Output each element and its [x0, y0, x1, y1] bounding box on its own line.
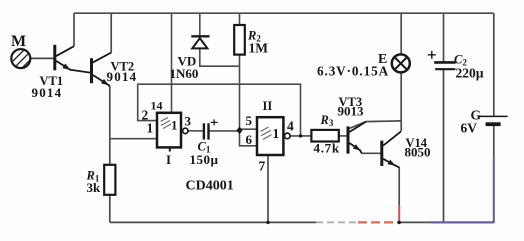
svg-text:6: 6 — [246, 132, 253, 147]
svg-text:4.7k: 4.7k — [314, 141, 340, 156]
svg-text:II: II — [263, 99, 273, 113]
svg-text:3: 3 — [185, 114, 192, 129]
svg-text:6V: 6V — [461, 121, 478, 136]
svg-text:9014: 9014 — [32, 85, 63, 100]
svg-text:4: 4 — [287, 118, 294, 133]
svg-text:14: 14 — [151, 99, 163, 113]
svg-text:9013: 9013 — [338, 104, 365, 119]
svg-text:3k: 3k — [87, 180, 102, 195]
svg-text:CD4001: CD4001 — [186, 179, 234, 194]
svg-text:7: 7 — [259, 159, 266, 174]
svg-text:220µ: 220µ — [456, 66, 484, 81]
svg-text:1N60: 1N60 — [170, 66, 199, 81]
svg-text:5: 5 — [246, 113, 253, 128]
svg-text:8050: 8050 — [405, 145, 431, 160]
svg-text:I: I — [166, 152, 171, 167]
svg-text:1: 1 — [273, 126, 280, 141]
svg-text:150µ: 150µ — [190, 152, 219, 167]
svg-text:1M: 1M — [249, 41, 269, 56]
svg-text:M: M — [11, 33, 26, 50]
svg-text:1: 1 — [147, 121, 154, 136]
svg-text:6.3V·0.15A: 6.3V·0.15A — [317, 64, 389, 79]
svg-text:1: 1 — [171, 118, 178, 133]
svg-text:9014: 9014 — [107, 69, 138, 84]
